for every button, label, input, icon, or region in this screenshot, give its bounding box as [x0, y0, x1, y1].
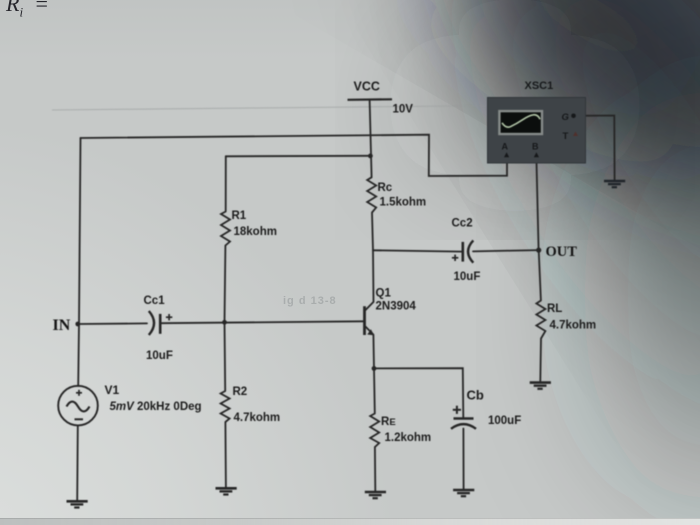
node junction VCC-R1 [368, 154, 373, 159]
svg-text:1.5kohm: 1.5kohm [380, 197, 427, 209]
wire emitter junction to RE [373, 368, 376, 413]
ground scope [604, 181, 625, 187]
resistor RE [370, 414, 379, 448]
handwritten annotation Ri = [6, 0, 49, 20]
node junction R1-R2-base [222, 320, 227, 325]
wire IN horizontal to Cc1 [79, 322, 147, 325]
wire scope B to OUT [536, 158, 538, 250]
resistor RL [536, 301, 545, 339]
svg-text:RE: RE [381, 416, 396, 428]
svg-text:10uF: 10uF [454, 271, 481, 283]
svg-text:IN: IN [53, 317, 71, 334]
node junction emitter-Cb [372, 366, 377, 371]
ground under R2 [216, 488, 237, 494]
svg-text:XSC1: XSC1 [525, 80, 554, 92]
wire R1 leads [225, 156, 227, 211]
oscilloscope XSC1 [488, 98, 586, 164]
transistor Q1 2N3904 [365, 302, 375, 336]
ground under RL [530, 383, 551, 389]
source V1 [58, 386, 98, 426]
wire R1 top to VCC junction [226, 155, 371, 158]
resistor Rc [367, 177, 376, 212]
capacitor Cc2 [452, 240, 473, 262]
capacitor Cb [451, 406, 476, 429]
power VCC lead [370, 100, 372, 178]
svg-text:Cc2: Cc2 [452, 218, 473, 230]
svg-text:Cc1: Cc1 [144, 295, 166, 307]
capacitor Cc1 [149, 311, 173, 335]
svg-text:A: A [502, 142, 509, 152]
svg-text:18kohm: 18kohm [234, 226, 277, 238]
svg-text:4.7kohm: 4.7kohm [234, 412, 281, 424]
svg-text:RL: RL [547, 303, 562, 315]
ground under RE [365, 492, 386, 498]
wire Cc2 right plate to OUT [473, 250, 539, 251]
wire RE bottom to ground [374, 447, 376, 491]
svg-text:100uF: 100uF [488, 415, 521, 427]
svg-text:R1: R1 [232, 210, 247, 222]
ground under V1 [67, 501, 88, 507]
ground under Cb [453, 490, 474, 496]
svg-text:B: B [532, 142, 539, 152]
svg-text:10uF: 10uF [146, 350, 173, 362]
node OUT [536, 248, 541, 253]
wire collector vertical [372, 250, 375, 302]
svg-text:Cb: Cb [467, 388, 484, 403]
svg-text:VCC: VCC [354, 80, 380, 94]
svg-text:4.7kohm: 4.7kohm [550, 320, 597, 332]
wire left vertical (IN column) [79, 138, 81, 324]
wire scope G to ground [573, 116, 614, 181]
svg-text:Rc: Rc [378, 182, 393, 194]
svg-text:2N3904: 2N3904 [376, 301, 417, 313]
wire Cc1 to base junction [161, 321, 364, 323]
wire OUT to RL [539, 250, 541, 300]
wire Cb bottom to ground [462, 429, 464, 490]
svg-text:OUT: OUT [546, 244, 578, 260]
svg-text:Q1: Q1 [376, 288, 392, 300]
svg-text:10V: 10V [393, 104, 414, 116]
svg-text:1.2kohm: 1.2kohm [385, 432, 432, 444]
wire IN node to V1 top [77, 324, 80, 386]
wire V1 bottom to ground [76, 426, 79, 501]
svg-text:T: T [563, 131, 569, 142]
svg-text:V1: V1 [105, 383, 120, 397]
node IN [75, 322, 80, 327]
wire Rc bottom to collector row [372, 213, 373, 251]
svg-text:G: G [562, 112, 570, 123]
resistor R1 [221, 212, 230, 246]
power VCC symbol [348, 98, 393, 101]
wire IN top-left horizontal to scope A [81, 135, 508, 176]
wire emitter vertical to junction [372, 335, 375, 369]
resistor R2 [221, 391, 230, 422]
wire emitter junction to Cb [374, 368, 463, 417]
svg-text:5mV 20kHz 0Deg: 5mV 20kHz 0Deg [110, 401, 202, 413]
wire collector row to Cc2 left plate [373, 250, 463, 251]
svg-text:R2: R2 [233, 386, 248, 398]
wire RL bottom to ground [539, 339, 542, 382]
wire R2 leads [224, 322, 227, 391]
